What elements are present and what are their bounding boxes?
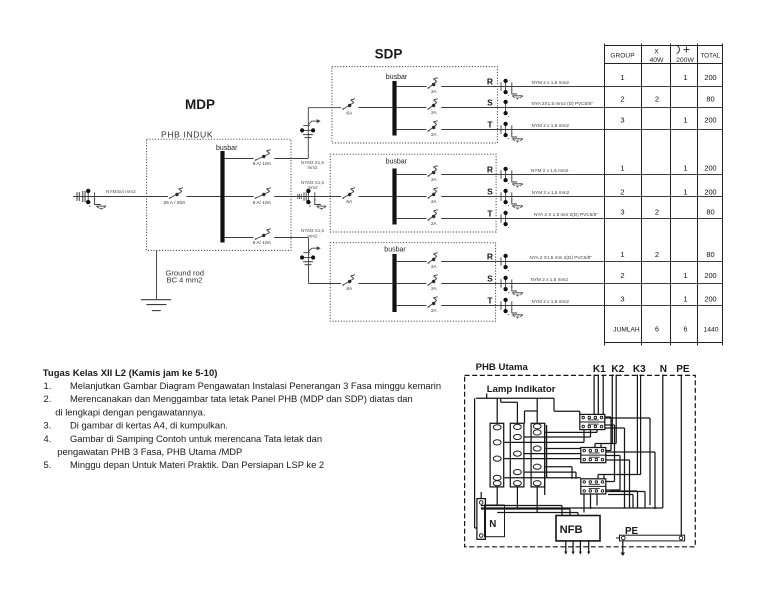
breaker SDP2 S 2A — [428, 188, 438, 204]
svg-text:TOTAL: TOTAL — [700, 53, 720, 60]
wire: SDP2 S stub — [397, 196, 427, 198]
svg-text:200: 200 — [704, 116, 716, 125]
wires: K3 block to lamp rows — [504, 467, 581, 479]
svg-text:6A: 6A — [346, 110, 353, 116]
wire: MDP branch R out — [274, 158, 308, 160]
svg-text:JUMLAH: JUMLAH — [613, 327, 640, 334]
svg-text:S: S — [487, 98, 493, 108]
wire: circuit SDP3 T to table — [441, 305, 722, 307]
breaker SDP3 R 2A — [428, 253, 438, 269]
wire: SDP1 input to busbar — [358, 107, 392, 109]
svg-text:3: 3 — [620, 116, 624, 125]
wires: K2 block to lamp rows — [504, 449, 581, 459]
svg-text:NYM 2 x 1,5 mm2: NYM 2 x 1,5 mm2 — [532, 299, 570, 304]
svg-text:NYM 2 x 1,5 mm2: NYM 2 x 1,5 mm2 — [532, 190, 570, 195]
svg-text:2A: 2A — [431, 110, 438, 115]
svg-text:1: 1 — [683, 295, 687, 304]
wire: SDP3 input to busbar — [358, 283, 392, 285]
tap symbol circuit SDP3 R — [501, 254, 509, 271]
ground rod conductor — [156, 250, 158, 299]
tap symbol circuit SDP1 R — [501, 79, 523, 100]
svg-text:2: 2 — [620, 187, 624, 196]
svg-text:PE: PE — [625, 526, 639, 537]
NFB output leads — [564, 541, 590, 555]
svg-text:2: 2 — [655, 250, 659, 259]
lamp indicator column 3 — [531, 423, 545, 487]
wire: circuit SDP1 R to table — [441, 86, 722, 88]
svg-text:R: R — [487, 77, 493, 87]
svg-text:NYM 2 x 1,5 mm2: NYM 2 x 1,5 mm2 — [531, 168, 569, 173]
wire: SDP2 input to busbar — [358, 196, 392, 198]
svg-text:busbar: busbar — [384, 247, 406, 254]
svg-text:1: 1 — [683, 271, 687, 280]
svg-text:2: 2 — [620, 94, 624, 103]
load table frame — [605, 44, 723, 346]
assignment line 3 — [55, 406, 205, 417]
contactor K3 block — [581, 479, 606, 494]
svg-text:6: 6 — [684, 325, 688, 334]
wire: SDP2 R stub — [397, 174, 427, 176]
svg-text:1: 1 — [683, 73, 687, 82]
breaker 25A/20A — [164, 188, 187, 206]
svg-text:K1: K1 — [593, 364, 606, 375]
tap symbol circuit SDP2 T — [501, 211, 509, 228]
service entrance metering symbol — [77, 189, 106, 210]
svg-text:S: S — [487, 274, 493, 284]
svg-text:2A: 2A — [431, 89, 438, 94]
svg-text:200: 200 — [704, 271, 716, 280]
svg-text:1: 1 — [683, 187, 687, 196]
wire: MDP branch T out — [274, 237, 308, 239]
svg-text:80: 80 — [706, 250, 714, 259]
breaker SDP2 R 2A — [428, 166, 438, 182]
svg-text:6 A/ 10A: 6 A/ 10A — [253, 240, 272, 246]
svg-text:2: 2 — [655, 94, 659, 103]
svg-text:40W: 40W — [650, 57, 665, 64]
label Ground rod BC 4 mm2 — [166, 268, 204, 284]
wire: SDP1 T stub — [397, 129, 427, 131]
svg-text:GROUP: GROUP — [610, 53, 635, 60]
svg-text:2: 2 — [655, 207, 659, 216]
svg-text:2A: 2A — [431, 199, 438, 204]
wire: circuit SDP2 R to table — [441, 174, 722, 176]
svg-text:PHB Utama: PHB Utama — [476, 362, 529, 373]
breaker SDP2 input 6A — [342, 188, 355, 206]
table row 3 values — [620, 116, 716, 125]
table row 4 values — [620, 164, 716, 173]
svg-text:NYA 2X1,5 mm2 (D) PVC5/8": NYA 2X1,5 mm2 (D) PVC5/8" — [532, 101, 594, 106]
SDP1 enclosure — [332, 67, 498, 143]
NFB breaker box — [556, 516, 600, 541]
svg-text:1: 1 — [683, 116, 687, 125]
tap symbol circuit SDP1 T — [501, 122, 523, 143]
svg-text:NYM 2 x 1,5 mm2: NYM 2 x 1,5 mm2 — [531, 277, 569, 282]
wire: SDP1 S stub — [397, 107, 427, 109]
terminal labels K1 K2 K3 N PE — [593, 364, 690, 375]
table header 40W column — [650, 49, 665, 65]
svg-text:NFB: NFB — [560, 524, 583, 536]
svg-text:200: 200 — [704, 295, 716, 304]
svg-text:200: 200 — [704, 73, 716, 82]
wire: MDP branch T stub — [225, 237, 254, 239]
svg-text:3: 3 — [620, 207, 624, 216]
svg-text:6: 6 — [655, 325, 659, 334]
PHB Utama enclosure (dashed) — [465, 375, 696, 546]
table row 9 values — [620, 295, 716, 304]
SDP1 busbar — [386, 74, 408, 136]
wire: feeder to SDP1 (riser) — [308, 108, 341, 158]
table row 2 values — [620, 94, 714, 103]
svg-text:6A: 6A — [346, 199, 353, 205]
svg-text:2: 2 — [620, 271, 624, 280]
svg-text:mm2: mm2 — [308, 165, 318, 170]
breaker CB-MDP-R 6A/10A — [253, 150, 272, 168]
lamp indicator column 1 — [490, 423, 504, 487]
svg-text:K2: K2 — [611, 364, 624, 375]
svg-text:NYA 2 X 1,5 mm 2(D) PVC5/8": NYA 2 X 1,5 mm 2(D) PVC5/8" — [534, 212, 598, 217]
svg-text:NYM 2 x 1,5 mm2: NYM 2 x 1,5 mm2 — [532, 123, 570, 128]
svg-text:3: 3 — [620, 295, 624, 304]
SDP3 busbar — [384, 247, 406, 313]
breaker SDP3 S 2A — [428, 275, 438, 291]
svg-text:3.: 3. — [44, 420, 52, 431]
svg-text:R: R — [487, 252, 493, 262]
assignment line 4 — [44, 420, 228, 431]
svg-text:NYM 2 x 1,5 mm2: NYM 2 x 1,5 mm2 — [532, 80, 570, 85]
table row 1 values — [620, 73, 716, 82]
metering symbol SDP2 feed — [298, 189, 326, 210]
wire: left drop to N strip — [475, 527, 477, 529]
svg-text:4.: 4. — [44, 433, 52, 444]
wire: SDP3 T stub — [397, 305, 427, 307]
table header lamp icon 200W column — [676, 46, 694, 65]
svg-text:Lamp Indikator: Lamp Indikator — [487, 384, 556, 395]
breaker SDP1 T 2A — [428, 121, 438, 137]
svg-text:2A: 2A — [431, 221, 438, 226]
wire: circuit SDP3 R to table — [441, 261, 722, 263]
svg-text:6 A/ 10A: 6 A/ 10A — [253, 200, 272, 206]
table row 8 values — [620, 271, 716, 280]
svg-text:mm2: mm2 — [308, 233, 318, 238]
svg-text:1: 1 — [620, 250, 624, 259]
svg-text:NYA 2 X1,5 mm 2(D) PVC5/8": NYA 2 X1,5 mm 2(D) PVC5/8" — [530, 255, 593, 260]
wires: K1 drops — [594, 375, 603, 415]
label NYM3 X1,5 mm2 (SDP1) — [301, 160, 325, 170]
earth ground symbol (ground rod) — [141, 300, 171, 311]
wire: MDP branch S out — [274, 196, 294, 198]
svg-text:Minggu depan Untuk Materi Prak: Minggu depan Untuk Materi Praktik. Dan P… — [70, 459, 324, 470]
tap symbol circuit SDP1 S — [503, 100, 508, 117]
table row 6 values — [620, 207, 714, 216]
svg-text:1: 1 — [683, 164, 687, 173]
svg-text:2A: 2A — [431, 177, 438, 182]
breaker SDP1 input 6A — [342, 99, 355, 117]
wire: SDP3 R stub — [397, 261, 427, 263]
svg-text:6A: 6A — [346, 286, 353, 292]
svg-text:S: S — [487, 187, 493, 197]
svg-text:T: T — [487, 296, 493, 306]
wires: K1 block to lamp rows — [504, 430, 597, 443]
breaker SDP3 input 6A — [342, 275, 355, 293]
wires: K2 drops — [595, 375, 616, 448]
svg-text:1: 1 — [620, 164, 624, 173]
svg-text:80: 80 — [706, 94, 714, 103]
MDP busbar — [216, 145, 238, 243]
SDP2 enclosure — [330, 154, 496, 232]
wire: circuit SDP2 S to table — [441, 196, 722, 198]
svg-text:busbar: busbar — [216, 145, 238, 152]
svg-text:Gambar di Samping Contoh untu: Gambar di Samping Contoh untuk merencana… — [70, 433, 322, 444]
svg-text:1440: 1440 — [703, 327, 718, 334]
MDP enclosure PHB INDUK — [147, 130, 291, 251]
svg-text:X: X — [654, 49, 659, 56]
svg-text:2A: 2A — [431, 264, 438, 269]
breaker CB-MDP-S 6A/10A — [253, 188, 272, 206]
surge arrester SDP3 feed — [300, 246, 321, 265]
wire: SDP3 S stub — [397, 283, 427, 285]
assignment line 5 — [44, 433, 323, 444]
SDP2 busbar — [386, 158, 408, 224]
svg-text:80: 80 — [706, 207, 714, 216]
table row 7 values — [620, 250, 714, 259]
PE earth bar — [616, 526, 685, 556]
assignment line 1 — [44, 380, 442, 391]
contactor K1 block — [580, 414, 605, 429]
svg-text:N: N — [660, 364, 667, 375]
svg-text:Tugas Kelas XII L2 (Kamis jam: Tugas Kelas XII L2 (Kamis jam ke 5-10) — [43, 368, 218, 379]
surge arrester SDP1 feed — [300, 119, 321, 138]
svg-text:K3: K3 — [633, 364, 646, 375]
wire: N drop — [481, 375, 663, 509]
svg-text:5.: 5. — [44, 459, 52, 470]
svg-text:200: 200 — [704, 187, 716, 196]
label NYM3 X1,5 mm2 (SDP2) — [301, 180, 325, 190]
wire: MDP branch S stub — [225, 196, 254, 198]
svg-text:Melanjutkan Gambar Diagram Pen: Melanjutkan Gambar Diagram Pengawatan In… — [70, 380, 441, 391]
svg-text:busbar: busbar — [386, 74, 408, 81]
label NYM3 X1,5 mm2 (SDP3) — [301, 228, 325, 238]
svg-text:6 A/ 10A: 6 A/ 10A — [253, 161, 272, 167]
wires: column bottoms to NFB bundle — [481, 487, 578, 516]
svg-text:T: T — [487, 120, 493, 130]
assignment line 6 — [57, 446, 242, 457]
table row 5 values — [620, 187, 716, 196]
wire: service entrance — [73, 196, 168, 198]
svg-text:busbar: busbar — [386, 158, 408, 165]
svg-text:T: T — [487, 209, 493, 219]
neutral busbar strip — [477, 492, 486, 539]
breaker SDP2 T 2A — [428, 210, 438, 226]
svg-text:SDP: SDP — [375, 47, 403, 62]
breaker SDP3 T 2A — [428, 297, 438, 313]
wire: circuit SDP1 T to table — [441, 129, 722, 131]
wire: MDP branch R stub — [225, 158, 254, 160]
svg-text:200: 200 — [704, 164, 716, 173]
svg-text:PE: PE — [676, 364, 690, 375]
svg-text:2A: 2A — [431, 286, 438, 291]
wires: lamp column feeds (top staircase) — [475, 394, 580, 529]
svg-text:Di gambar di kertas A4, di kum: Di gambar di kertas A4, di kumpulkan. — [70, 420, 228, 431]
svg-text:pengawatan PHB 3 Fasa, PHB Uta: pengawatan PHB 3 Fasa, PHB Utama /MDP — [57, 446, 242, 457]
svg-text:BC 4 mm2: BC 4 mm2 — [167, 276, 203, 285]
lamp indicator column 2 — [510, 423, 524, 487]
table row JUMLAH totals — [613, 325, 718, 334]
wires: contactor returns (right side) — [584, 417, 655, 513]
wire: PE drop — [680, 375, 682, 536]
wire: circuit SDP1 S to table — [441, 107, 722, 109]
svg-text:MDP: MDP — [185, 97, 215, 112]
wire: circuit SDP2 T to table — [441, 218, 722, 220]
svg-text:200W: 200W — [676, 57, 694, 64]
tap symbol circuit SDP3 S — [501, 276, 523, 297]
wire: feeder to SDP2 — [294, 196, 341, 198]
svg-text:mm2: mm2 — [308, 185, 318, 190]
svg-text:25 A / 20A: 25 A / 20A — [164, 200, 187, 206]
contactor K2 block — [581, 448, 606, 463]
assignment line 2 — [44, 393, 413, 404]
svg-text:R: R — [487, 165, 493, 175]
svg-text:NYM3x4 mm2: NYM3x4 mm2 — [106, 189, 136, 194]
wire: SDP2 T stub — [397, 218, 427, 220]
svg-text:PHB INDUK: PHB INDUK — [161, 130, 213, 140]
wire: circuit SDP3 S to table — [441, 283, 722, 285]
wire: feeder to SDP3 (downcomer) — [309, 238, 342, 284]
breaker SDP1 S 2A — [428, 99, 438, 115]
svg-text:2A: 2A — [431, 308, 438, 313]
svg-text:N: N — [489, 519, 496, 530]
SDP3 enclosure — [330, 243, 495, 322]
svg-text:2.: 2. — [44, 393, 52, 404]
tap symbol circuit SDP3 T — [501, 298, 523, 319]
svg-text:di lengkapi dengan pengawatann: di lengkapi dengan pengawatannya. — [55, 406, 205, 417]
svg-text:Merencanakan dan Menggambar ta: Merencanakan dan Menggambar tata letak P… — [70, 393, 413, 404]
breaker SDP1 R 2A — [428, 78, 438, 94]
assignment line 7 — [44, 459, 325, 470]
N terminal box — [485, 505, 505, 537]
tap symbol circuit SDP2 R — [501, 167, 523, 188]
wire: breaker to MDP busbar — [186, 196, 221, 198]
svg-text:2A: 2A — [431, 132, 438, 137]
svg-text:1.: 1. — [44, 380, 52, 391]
breaker CB-MDP-T 6A/10A — [253, 229, 272, 246]
wires: K3 drops — [598, 375, 641, 479]
svg-text:1: 1 — [620, 73, 624, 82]
wire: SDP1 R stub — [397, 86, 427, 88]
tap symbol circuit SDP2 S — [501, 189, 523, 210]
